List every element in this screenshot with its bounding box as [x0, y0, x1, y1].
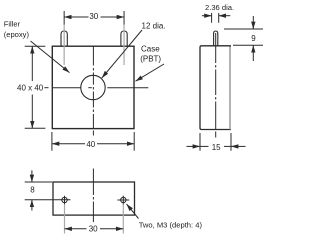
dimension 40x40 left: vertical dimension line with arrows: [31, 46, 33, 128]
dimension text 9: [251, 34, 256, 43]
label 12 dia.: [142, 22, 166, 31]
label Two, M3 (depth: 4): [139, 221, 203, 230]
front view right terminal pin: [121, 31, 127, 46]
svg-text:(epoxy): (epoxy): [4, 30, 30, 39]
svg-text:30: 30: [89, 224, 98, 233]
dimension 40 bottom: dimension line with arrows: [52, 143, 134, 145]
leader arrow from Two M3 label to right hole: [127, 204, 139, 219]
dimension 9 pin height: arrows: [252, 16, 254, 61]
dimension 15: arrow lines: [187, 145, 246, 147]
dimension text 30 (bottom): [87, 224, 101, 234]
dimension 2.36 dia.: extension lines: [212, 13, 219, 23]
pin top reference line: [224, 28, 263, 30]
front view through-hole circle: [81, 75, 105, 99]
leader arrow from Case label to body edge: [136, 64, 165, 81]
label Case (PBT): [140, 45, 161, 64]
label Filler (epoxy): [4, 20, 30, 40]
dimension 40x40 left: extension lines: [25, 46, 46, 128]
dimension 30 hole spacing: dimension line with arrows: [65, 228, 124, 230]
side view case body: [200, 46, 231, 130]
svg-text:8: 8: [30, 185, 35, 194]
mounting hole right M3: [118, 196, 130, 205]
svg-text:Filler: Filler: [4, 20, 21, 29]
gray extension line below left hole: [64, 204, 66, 233]
leader arrow from Filler label: [31, 41, 70, 73]
dimension text 2.36 dia.: [205, 3, 234, 12]
svg-text:15: 15: [212, 143, 221, 152]
svg-text:Two, M3 (depth: 4): Two, M3 (depth: 4): [139, 221, 203, 230]
dimension 15: extension lines: [200, 133, 231, 151]
dimension 40 bottom: extension lines: [52, 132, 134, 151]
bottom view top edge extension (8 dim upper reference): [25, 181, 52, 183]
front view case body: [52, 46, 134, 128]
dimension text 30 (top): [89, 12, 98, 21]
leader arrow from 12 dia. label to circle: [102, 30, 142, 78]
svg-text:9: 9: [251, 34, 256, 43]
dimension text 8: [30, 185, 35, 194]
dimension 8: arrows: [31, 170, 33, 210]
mounting hole left M3: [62, 196, 67, 205]
svg-text:2.36 dia.: 2.36 dia.: [205, 3, 234, 12]
gray extension line below right hole: [122, 204, 124, 233]
svg-text:40: 40: [86, 140, 95, 149]
dimension 30 pin spacing: dimension line with arrows: [64, 16, 124, 18]
svg-text:30: 30: [89, 12, 98, 21]
side view vertical centerline: [215, 33, 217, 138]
front view left terminal pin: [61, 31, 67, 46]
front view horizontal centerline: [44, 87, 148, 89]
dimension 2.36 dia.: arrow lines: [202, 15, 230, 17]
svg-text:40 x 40: 40 x 40: [17, 84, 44, 93]
bottom view vertical centerline: [92, 169, 94, 223]
left pin gray centerline: [63, 25, 65, 65]
bottom view base plate: [53, 182, 135, 215]
svg-text:Case: Case: [141, 45, 160, 54]
right pin gray centerline: [123, 25, 125, 65]
dimension text 15: [210, 142, 223, 152]
side view terminal pin: [214, 31, 218, 46]
front view vertical centerline: [92, 46, 94, 135]
body top reference line: [233, 44, 263, 46]
hole centerline horizontal (8 dim lower reference): [25, 199, 71, 201]
dimension 30 pin spacing: extension lines: [64, 11, 124, 25]
svg-text:(PBT): (PBT): [140, 55, 161, 64]
svg-text:12 dia.: 12 dia.: [142, 22, 166, 31]
dimension text 40: [86, 140, 95, 149]
dimension text 40 x 40: [16, 83, 44, 93]
